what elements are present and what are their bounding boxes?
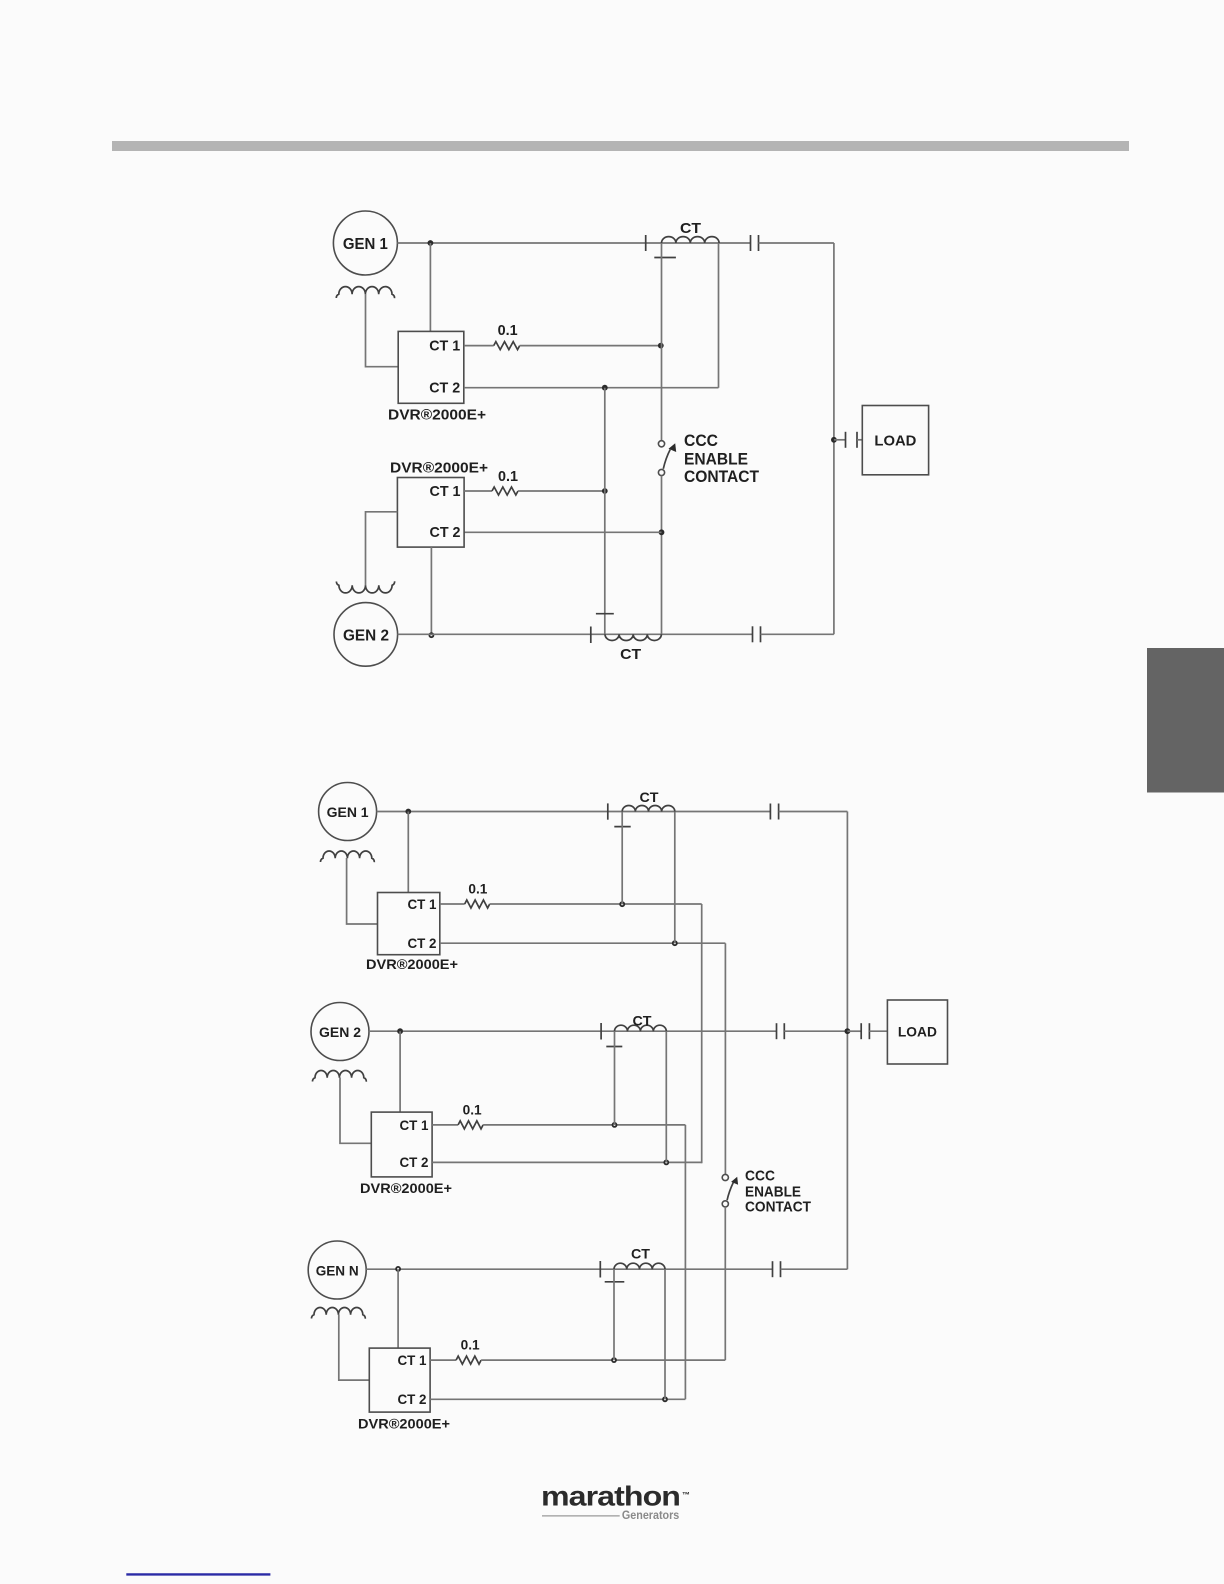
node CT2 bus junction — [602, 385, 608, 391]
wire capacitor to node (d2 row2) — [784, 1030, 847, 1032]
node GEN2 lead junction — [429, 632, 435, 638]
svg-text:GEN 2: GEN 2 — [319, 1024, 361, 1040]
svg-text:0.1: 0.1 — [461, 1337, 480, 1353]
svg-text:CONTACT: CONTACT — [745, 1198, 811, 1215]
CT1 polarity tick (top CT) — [645, 235, 647, 251]
generator GEN N (diagram 2) — [308, 1241, 366, 1299]
wire GEN1 junction down to DVR1 sensing input — [429, 243, 431, 331]
current transformer CT (top) — [662, 237, 720, 243]
page edge dark tab — [1147, 648, 1224, 793]
wire field winding to DVR left (d2 row1) — [347, 858, 378, 924]
regulator U2 DVR box (diagram 1, GEN2) — [397, 478, 464, 548]
current transformer CT (bottom) — [605, 634, 661, 640]
svg-text:CT 1: CT 1 — [398, 1352, 427, 1368]
svg-text:CT: CT — [640, 789, 659, 805]
logo marathon wordmark — [541, 1481, 690, 1512]
regulator U1 DVR box (diagram 1, GEN1) — [398, 331, 464, 403]
svg-text:0.1: 0.1 — [468, 881, 487, 897]
wire field winding to DVR1 left — [366, 294, 399, 367]
svg-text:GEN 1: GEN 1 — [327, 804, 369, 820]
node CT1 secondary (d2 row2) — [612, 1122, 618, 1128]
wire CT secondary right leg (d2 row1) — [674, 812, 676, 944]
wire CT1 pin to resistor (d2 row1) — [440, 903, 465, 905]
CT polarity tick (d2 row2) — [600, 1023, 602, 1040]
CT secondary crossing tick (bottom) — [596, 613, 614, 615]
wire CT2 pin (d2 row1) — [440, 942, 726, 944]
svg-text:CCC: CCC — [684, 431, 718, 450]
capacitor C2 (load) — [845, 432, 847, 448]
wire bus to load capacitor — [834, 439, 846, 441]
wire switch to bottom CT right leg — [661, 476, 663, 635]
switch CCC enable contact (diagram 2) — [722, 1174, 738, 1207]
wire switch to GEN N CT1 line (d2) — [724, 1207, 726, 1360]
field winding GEN2 (d2) — [312, 1070, 366, 1081]
wire GEN1 stator lead (d2) — [377, 811, 771, 813]
svg-text:LOAD: LOAD — [874, 432, 916, 449]
wire CT1 chain down (d2 row1) — [701, 904, 703, 1163]
svg-text:DVR®2000E+: DVR®2000E+ — [358, 1416, 450, 1432]
svg-text:GEN 2: GEN 2 — [343, 628, 389, 645]
node CT2 secondary (d2 row2) — [663, 1160, 669, 1166]
capacitor (d2 row3 feeder) — [772, 1261, 774, 1277]
node GEN1 lead junction — [428, 240, 434, 246]
wire CT secondary left leg (d2 row2) — [614, 1031, 616, 1125]
wire bus to load capacitor (d2) — [847, 1030, 861, 1032]
svg-text:CT 2: CT 2 — [400, 1154, 429, 1170]
logo rule line — [542, 1515, 620, 1517]
svg-text:CT: CT — [633, 1012, 652, 1028]
label CCC ENABLE CONTACT (diagram 1) — [684, 431, 760, 486]
wire CT1 pin to resistor (d2 row3) — [430, 1359, 456, 1361]
wire resistor to switch leg (d2 row3) — [481, 1359, 725, 1361]
node CT1 secondary (d2 row3) — [611, 1357, 617, 1363]
wire GEN N stator lead (d2) — [366, 1268, 772, 1270]
header rule bar — [112, 141, 1129, 151]
svg-text:CCC: CCC — [745, 1167, 775, 1184]
wire GEN1 junction to DVR top (d2) — [407, 812, 409, 893]
wire field winding to DVR left (d2 row2) — [340, 1078, 371, 1144]
CT secondary crossing tick (d2 row3) — [605, 1281, 625, 1283]
wire CT secondary right leg — [718, 243, 720, 388]
wire GEN1 stator lead to CT primary — [397, 242, 750, 244]
wire capacitor to right bus (d2 row3) — [781, 1268, 848, 1270]
current transformer CT (d2 row2) — [615, 1025, 667, 1031]
svg-text:CT 2: CT 2 — [430, 524, 461, 541]
node GEN2 lead junction (d2) — [397, 1028, 403, 1034]
svg-text:CT 2: CT 2 — [429, 380, 460, 397]
capacitor (d2 row2 feeder) — [776, 1023, 778, 1039]
capacitor (d2 load) — [860, 1023, 862, 1039]
node CT1 secondary (d2 row1) — [619, 901, 625, 907]
svg-text:CT 1: CT 1 — [400, 1117, 429, 1133]
wire CT secondary right leg (d2 row3) — [664, 1269, 666, 1399]
node LOAD tap — [831, 437, 837, 443]
wire CT2 pin (d2 row2) — [432, 1161, 702, 1163]
capacitor (d2 row1 feeder) — [769, 804, 771, 820]
regulator DVR box (d2, GEN N) — [369, 1348, 430, 1412]
wire capacitor to LOAD — [857, 439, 862, 441]
wire resistor R2 to mid bus — [518, 490, 605, 492]
wire DVR1 CT1 pin to resistor — [464, 345, 494, 347]
node R2 - mid bus junction — [602, 488, 608, 494]
wire capacitor to right bus (d2 row1) — [779, 811, 848, 813]
wire DVR2 CT1 pin to resistor — [464, 490, 492, 492]
node CT2 secondary (d2 row1) — [672, 940, 678, 946]
resistor R2 0.1 ohm — [492, 487, 518, 495]
svg-text:CONTACT: CONTACT — [684, 467, 760, 486]
label CCC ENABLE CONTACT (diagram 2) — [745, 1167, 811, 1215]
wire GEN2 stator lead — [398, 633, 753, 635]
wire capacitor to LOAD (d2) — [869, 1030, 887, 1032]
wire CT secondary left leg to switch — [661, 243, 663, 441]
svg-text:Generators: Generators — [622, 1508, 680, 1522]
current transformer CT (d2 row1) — [622, 806, 675, 812]
svg-text:DVR®2000E+: DVR®2000E+ — [390, 459, 488, 476]
wire GEN N junction to DVR top (d2) — [397, 1269, 399, 1348]
CT secondary crossing tick (top) — [654, 257, 676, 259]
node GEN N lead junction (d2) — [395, 1266, 401, 1272]
wire CT2 pin (d2 row3) — [430, 1398, 685, 1400]
wire CT1 pin to resistor (d2 row2) — [432, 1124, 458, 1126]
svg-text:CT: CT — [620, 646, 641, 663]
svg-text:ENABLE: ENABLE — [684, 449, 748, 468]
svg-text:DVR®2000E+: DVR®2000E+ — [388, 407, 486, 424]
CT secondary crossing tick (d2 row2) — [606, 1046, 622, 1048]
wire resistor to CT node (d2 row2) — [483, 1124, 685, 1126]
CT2 polarity tick (bottom CT) — [590, 627, 592, 644]
wire field winding to DVR left (d2 row3) — [339, 1315, 370, 1381]
generator GEN 2 (diagram 2) — [311, 1003, 369, 1061]
svg-text:™: ™ — [682, 1491, 690, 1500]
svg-text:CT 1: CT 1 — [430, 483, 461, 500]
svg-text:LOAD: LOAD — [898, 1024, 937, 1040]
wire GEN2 stator lead (d2) — [369, 1030, 777, 1032]
wire CT secondary left leg (d2 row3) — [613, 1269, 615, 1360]
regulator DVR box (d2, GEN1) — [378, 893, 440, 955]
svg-text:0.1: 0.1 — [498, 468, 518, 485]
svg-text:GEN 1: GEN 1 — [343, 236, 388, 253]
svg-text:CT: CT — [680, 220, 701, 237]
resistor 0.1 (d2 row2) — [458, 1121, 483, 1129]
wire right bus vertical (diagram 1) — [833, 243, 835, 634]
svg-text:CT 2: CT 2 — [408, 935, 437, 951]
footer blue rule — [126, 1573, 270, 1575]
field winding GEN N (d2) — [311, 1307, 365, 1318]
node load tap (d2) — [845, 1028, 851, 1034]
wire capacitor to right bus — [759, 242, 834, 244]
generator GEN 1 (diagram 2) — [319, 783, 377, 841]
svg-text:marathon: marathon — [541, 1481, 680, 1512]
node CT2 secondary (d2 row3) — [662, 1396, 668, 1402]
field winding GEN 2 (flipped) — [336, 581, 394, 593]
resistor 0.1 (d2 row1) — [465, 900, 490, 908]
wire CT secondary left leg (d2 row1) — [621, 812, 623, 905]
generator GEN 1 (diagram 1) — [333, 211, 397, 275]
wire GEN2 junction to DVR top (d2) — [399, 1031, 401, 1112]
load block LOAD (diagram 1) — [862, 406, 928, 475]
node CT1 - CCC bus junction — [658, 343, 664, 349]
wire DVR1 CT2 pin — [464, 387, 719, 389]
generator GEN 2 (diagram 1) — [334, 603, 398, 667]
wire CT secondary right leg (d2 row2) — [665, 1031, 667, 1162]
wire CT1 chain down (d2 row2) — [684, 1125, 686, 1399]
CT polarity tick (d2 row3) — [599, 1261, 601, 1278]
wire DVR2 CT2 pin — [464, 531, 661, 533]
field winding GEN 1 — [336, 287, 394, 299]
resistor 0.1 (d2 row3) — [456, 1356, 481, 1364]
CT polarity tick (d2 row1) — [607, 803, 609, 819]
wire resistor to CCC bus — [520, 345, 661, 347]
wire CT2 chain down to switch (d2 row1) — [724, 943, 726, 1174]
node CCC - DVR2 CT2 junction — [659, 529, 665, 535]
svg-text:0.1: 0.1 — [498, 322, 518, 339]
wire DVR2 bottom to GEN2 lead — [430, 547, 432, 635]
wire field winding GEN2 to DVR2 left — [366, 512, 398, 586]
current transformer CT (d2 row3) — [614, 1263, 665, 1269]
svg-text:DVR®2000E+: DVR®2000E+ — [360, 1180, 452, 1196]
svg-text:CT 2: CT 2 — [398, 1391, 427, 1407]
resistor R1 0.1 ohm — [494, 342, 520, 350]
wire mid bus vertical — [604, 388, 606, 635]
capacitor C1 (top feeder) — [750, 235, 752, 251]
field winding GEN1 (d2) — [320, 851, 374, 862]
wire capacitor C3 to right bus — [761, 633, 834, 635]
svg-text:CT: CT — [631, 1245, 650, 1261]
capacitor C3 (bottom feeder) — [752, 626, 754, 642]
regulator DVR box (d2, GEN2) — [371, 1112, 432, 1177]
wire right bus vertical (d2) — [846, 812, 848, 1270]
load block LOAD (diagram 2) — [887, 1000, 947, 1064]
svg-text:CT 1: CT 1 — [429, 338, 460, 355]
switch S1 CCC enable contact (diagram 1) — [658, 441, 676, 476]
node GEN1 lead junction (d2) — [405, 809, 411, 815]
CT secondary crossing tick (d2 row1) — [614, 826, 630, 828]
svg-text:0.1: 0.1 — [463, 1101, 482, 1117]
wire resistor to CT node (d2 row1) — [490, 903, 702, 905]
svg-text:CT 1: CT 1 — [408, 896, 437, 912]
svg-text:DVR®2000E+: DVR®2000E+ — [366, 956, 458, 972]
svg-text:GEN N: GEN N — [316, 1263, 359, 1279]
